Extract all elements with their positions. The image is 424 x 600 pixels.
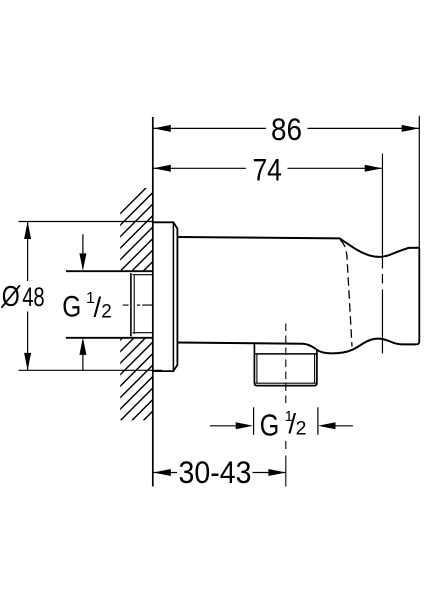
inlet thread G1/2 — [131, 274, 153, 336]
body top silhouette — [177, 237, 419, 257]
svg-text:G: G — [62, 291, 81, 324]
dimension 30-43 — [153, 454, 286, 490]
dimension 74 — [153, 152, 382, 188]
svg-text:74: 74 — [252, 152, 282, 188]
nipple centerline (dashed) / 30-43 extension — [285, 324, 287, 407]
hidden edge (dashed) — [340, 240, 352, 347]
svg-text:/: / — [94, 292, 102, 323]
holder centerline / 74 extension line — [381, 154, 383, 354]
holder right edge (object part) — [416, 248, 419, 345]
dimension 86 — [153, 111, 419, 147]
outlet nipple G1/2 — [254, 344, 317, 386]
svg-text:2: 2 — [101, 302, 112, 323]
wall surface line (also extension line for 86, 74 and 30-43) — [152, 117, 154, 487]
body bottom silhouette — [177, 339, 416, 354]
wall hole lower edge / G1/2 extension line — [66, 337, 153, 339]
pipe centerline — [123, 304, 153, 306]
escutcheon flange — [153, 222, 178, 371]
svg-text:G: G — [260, 408, 280, 443]
dimension G1/2 (outlet) — [210, 407, 353, 442]
dimension Ø48 — [1, 222, 162, 371]
svg-text:2: 2 — [296, 418, 307, 440]
svg-text:86: 86 — [271, 111, 302, 147]
extension line for 86 (right, above holder) — [418, 116, 420, 248]
svg-text:30-43: 30-43 — [179, 454, 252, 490]
wall hatching — [95, 181, 153, 481]
label G1/2 (wall inlet) with arrows — [62, 234, 112, 370]
wall hole upper edge / G1/2 extension line — [66, 270, 153, 272]
svg-text:48: 48 — [22, 282, 45, 312]
